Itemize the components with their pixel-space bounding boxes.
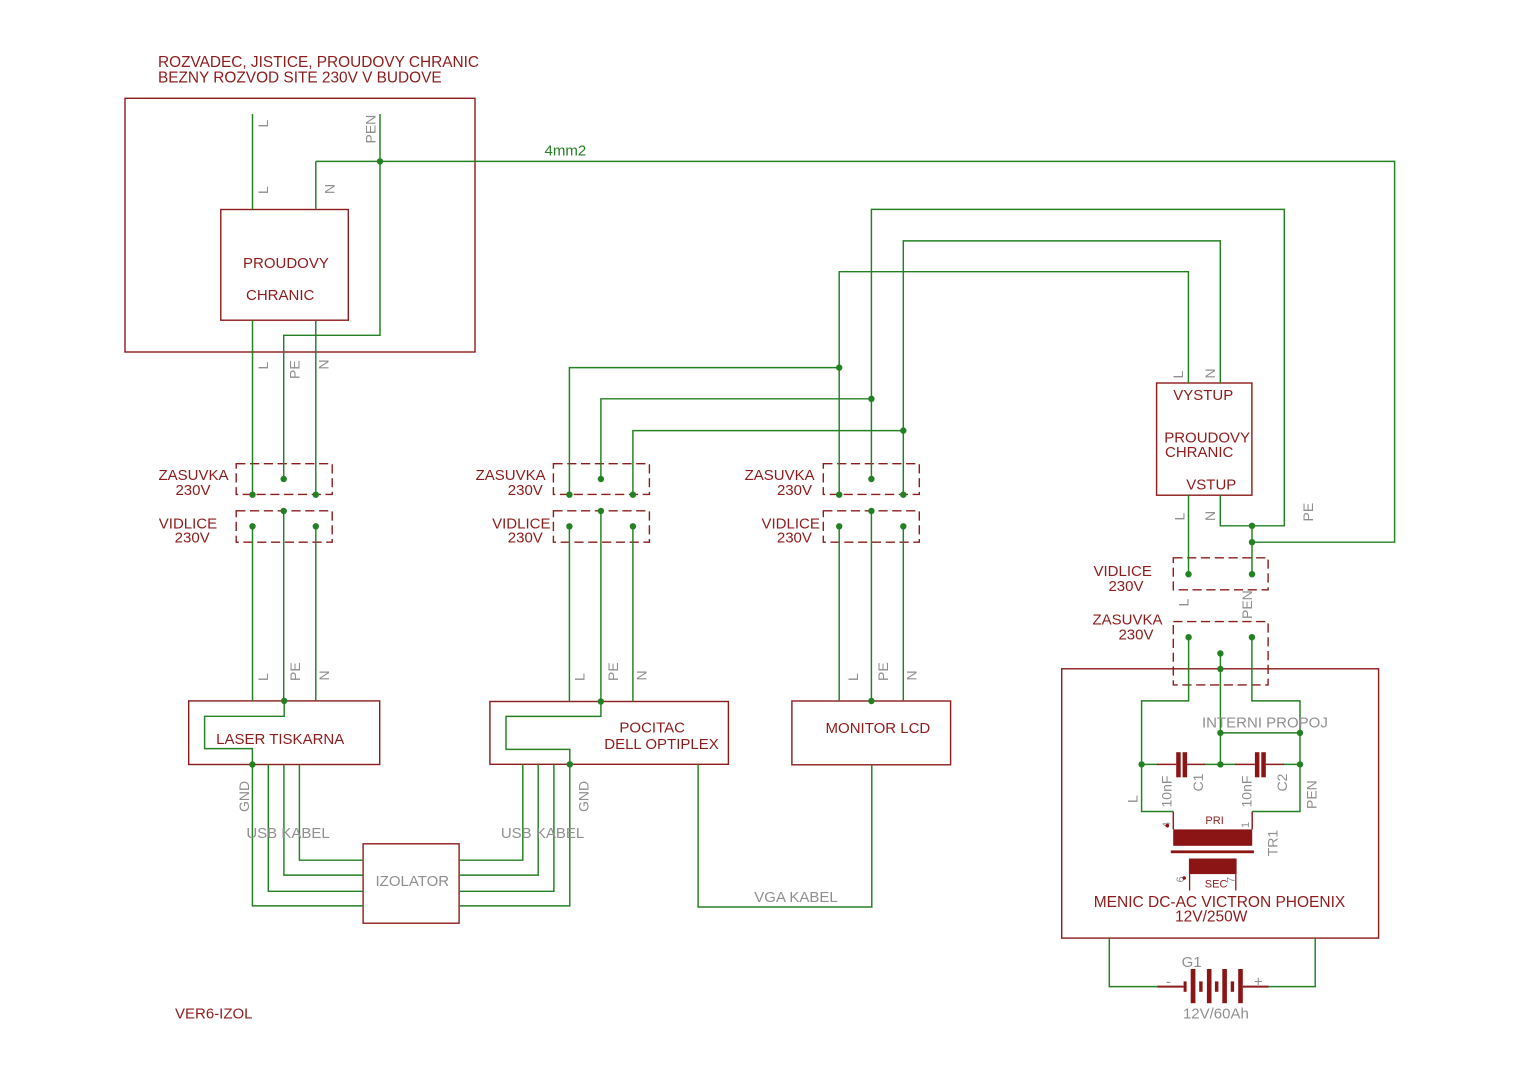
svg-text:CHRANIC: CHRANIC xyxy=(246,287,315,304)
svg-text:USB KABEL: USB KABEL xyxy=(501,825,584,842)
svg-text:L: L xyxy=(1125,795,1141,803)
svg-text:L: L xyxy=(255,120,271,128)
svg-text:+: + xyxy=(1254,974,1263,991)
svg-text:12V/250W: 12V/250W xyxy=(1175,908,1248,925)
svg-text:PRI: PRI xyxy=(1205,815,1223,827)
svg-text:-: - xyxy=(1166,974,1171,991)
svg-text:PROUDOVY: PROUDOVY xyxy=(243,255,329,272)
svg-text:230V: 230V xyxy=(175,482,210,499)
svg-text:IZOLATOR: IZOLATOR xyxy=(375,873,449,890)
svg-text:VYSTUP: VYSTUP xyxy=(1173,387,1233,404)
svg-text:GND: GND xyxy=(236,781,252,812)
svg-text:PEN: PEN xyxy=(1239,590,1255,619)
svg-text:PE: PE xyxy=(875,662,891,681)
svg-text:L: L xyxy=(1170,371,1186,379)
svg-text:C2: C2 xyxy=(1274,773,1290,791)
svg-text:230V: 230V xyxy=(777,530,812,547)
svg-text:N: N xyxy=(1202,368,1218,378)
svg-text:USB KABEL: USB KABEL xyxy=(246,825,329,842)
svg-text:L: L xyxy=(1176,599,1192,607)
svg-text:POCITAC: POCITAC xyxy=(619,719,685,736)
svg-text:230V: 230V xyxy=(175,530,210,547)
svg-text:PE: PE xyxy=(287,662,303,681)
svg-text:VSTUP: VSTUP xyxy=(1186,477,1236,494)
svg-text:PE: PE xyxy=(605,662,621,681)
svg-text:230V: 230V xyxy=(777,482,812,499)
svg-text:12V/60Ah: 12V/60Ah xyxy=(1183,1006,1249,1023)
svg-text:10nF: 10nF xyxy=(1159,776,1175,808)
svg-text:N: N xyxy=(1202,511,1218,521)
svg-text:PE: PE xyxy=(1300,503,1316,522)
svg-text:LASER TISKARNA: LASER TISKARNA xyxy=(216,731,344,748)
svg-text:230V: 230V xyxy=(508,530,543,547)
svg-text:VER6-IZOL: VER6-IZOL xyxy=(175,1006,253,1023)
svg-text:N: N xyxy=(904,670,920,680)
svg-text:1: 1 xyxy=(1240,822,1252,828)
svg-text:4mm2: 4mm2 xyxy=(545,143,587,160)
svg-text:MONITOR LCD: MONITOR LCD xyxy=(826,720,931,737)
svg-text:INTERNI PROPOJ: INTERNI PROPOJ xyxy=(1202,714,1328,731)
svg-text:230V: 230V xyxy=(1118,627,1153,644)
svg-text:TR1: TR1 xyxy=(1265,830,1281,857)
svg-text:230V: 230V xyxy=(1108,578,1143,595)
svg-text:PEN: PEN xyxy=(363,115,379,144)
svg-text:L: L xyxy=(572,673,588,681)
svg-text:L: L xyxy=(255,186,271,194)
svg-text:230V: 230V xyxy=(508,482,543,499)
svg-text:G1: G1 xyxy=(1182,954,1202,971)
svg-text:PE: PE xyxy=(287,360,303,379)
svg-text:VGA KABEL: VGA KABEL xyxy=(754,889,837,906)
svg-text:GND: GND xyxy=(576,781,592,812)
svg-text:L: L xyxy=(255,673,271,681)
svg-text:N: N xyxy=(634,670,650,680)
svg-text:N: N xyxy=(322,184,338,194)
svg-text:L: L xyxy=(255,362,271,370)
svg-text:BEZNY ROZVOD SITE 230V V BUDOV: BEZNY ROZVOD SITE 230V V BUDOVE xyxy=(158,69,442,86)
svg-text:7: 7 xyxy=(1226,877,1238,883)
svg-text:CHRANIC: CHRANIC xyxy=(1165,444,1234,461)
svg-text:C1: C1 xyxy=(1190,773,1206,791)
svg-text:DELL OPTIPLEX: DELL OPTIPLEX xyxy=(604,736,719,753)
svg-text:L: L xyxy=(1172,513,1188,521)
svg-text:L: L xyxy=(845,673,861,681)
svg-text:N: N xyxy=(316,670,332,680)
svg-text:N: N xyxy=(316,359,332,369)
svg-text:SEC: SEC xyxy=(1205,879,1228,891)
svg-text:PEN: PEN xyxy=(1304,780,1320,809)
svg-text:10nF: 10nF xyxy=(1239,776,1255,808)
